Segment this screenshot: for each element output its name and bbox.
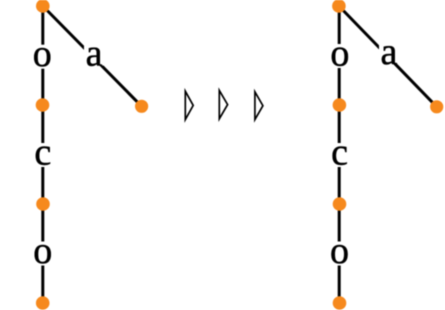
svg-text:c: c bbox=[34, 132, 51, 174]
node left label o2 bbox=[32, 230, 55, 272]
svg-text:a: a bbox=[380, 31, 397, 73]
wire left diagonal bbox=[43, 6, 142, 106]
node left label o1 bbox=[31, 33, 54, 75]
node right n3 bbox=[333, 197, 347, 211]
node left root bbox=[36, 0, 50, 13]
svg-text:o: o bbox=[330, 33, 349, 75]
triangle 3 bbox=[255, 92, 263, 120]
triangle 2 bbox=[219, 90, 227, 118]
node left label a bbox=[84, 33, 104, 75]
node right n4 bbox=[333, 296, 347, 310]
wire right diagonal bbox=[339, 6, 437, 107]
node right a-child bbox=[430, 100, 443, 113]
node right root bbox=[332, 0, 346, 13]
node left n4 bbox=[36, 296, 50, 310]
node left n3 bbox=[36, 197, 50, 211]
svg-text:o: o bbox=[330, 230, 349, 272]
svg-text:o: o bbox=[33, 230, 52, 272]
svg-text:c: c bbox=[331, 132, 348, 174]
node right label o1 bbox=[329, 33, 352, 75]
svg-text:o: o bbox=[33, 33, 52, 75]
node left a-child bbox=[135, 100, 148, 113]
node left n2 bbox=[36, 98, 50, 112]
node right n2 bbox=[333, 98, 347, 112]
node right label o2 bbox=[328, 230, 351, 272]
wire left trunk bbox=[41, 6, 44, 303]
svg-text:a: a bbox=[86, 33, 103, 75]
node right label a bbox=[379, 31, 399, 73]
node right label c bbox=[328, 132, 351, 174]
wire right trunk bbox=[338, 6, 341, 303]
triangle 1 bbox=[185, 91, 193, 119]
node left label c bbox=[32, 132, 55, 174]
